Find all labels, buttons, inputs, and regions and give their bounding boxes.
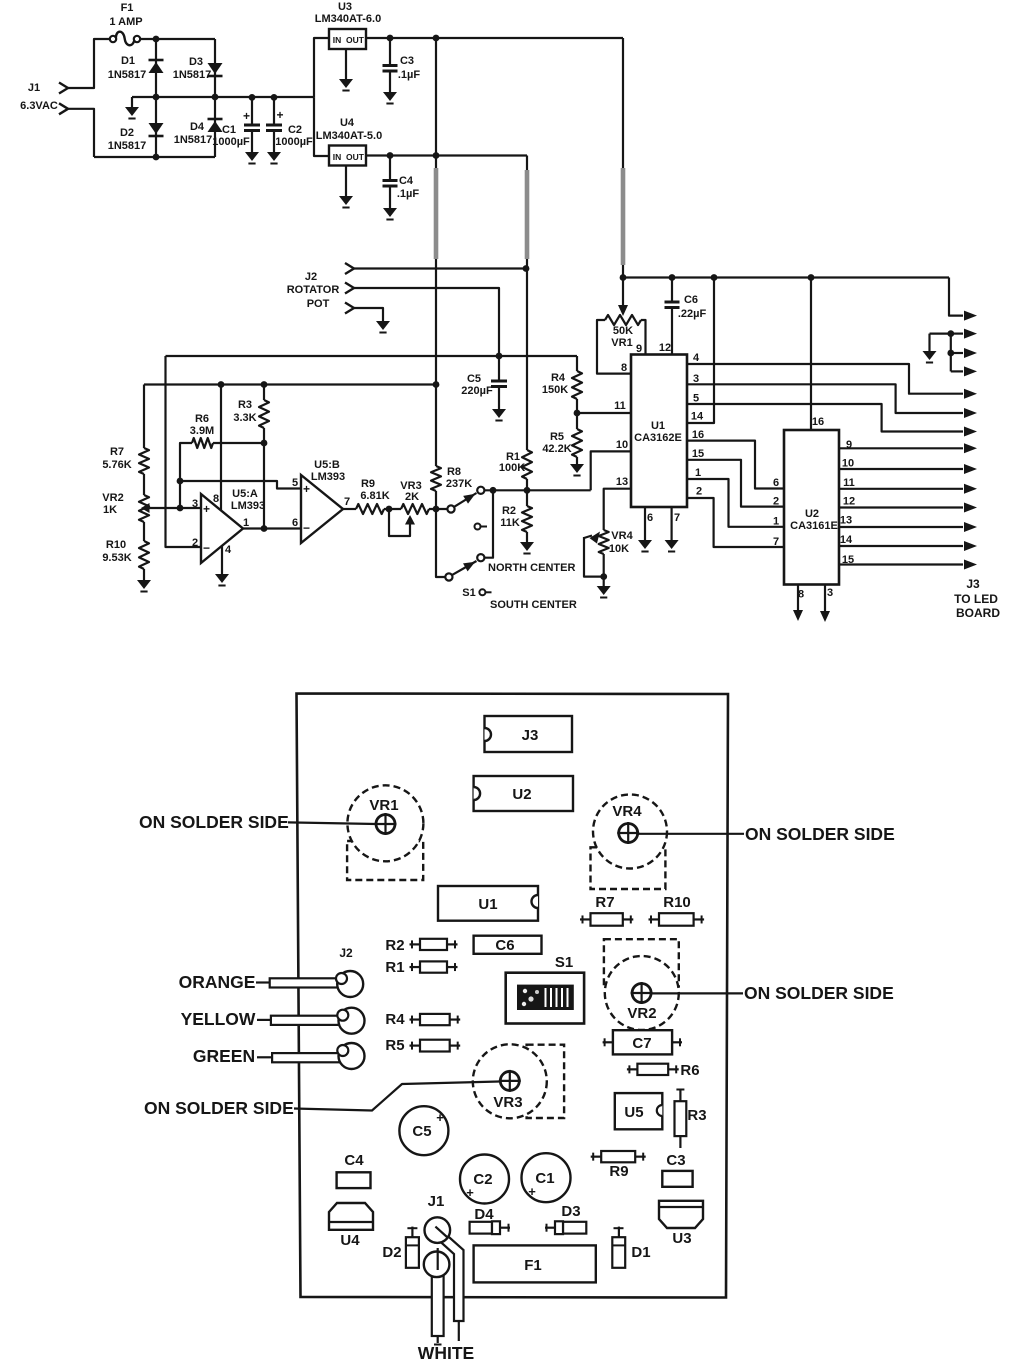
svg-text:9.53K: 9.53K [102, 552, 131, 564]
switch S1 contact lower-left [445, 573, 452, 580]
svg-text:U2: U2 [512, 786, 531, 803]
svg-text:S1: S1 [555, 954, 573, 971]
wire U2 pin16 to rail [810, 278, 812, 431]
node R9 VR3 junction [386, 506, 393, 513]
switch S1 contact lower-right [477, 554, 484, 561]
capacitor C2 footprint [460, 1155, 509, 1204]
svg-text:OUT: OUT [346, 152, 365, 162]
wire U5A output [243, 527, 301, 529]
capacitor C1 [249, 94, 256, 101]
ground U1 pin6 [644, 507, 646, 540]
svg-text:IN: IN [333, 35, 342, 45]
wire to U1 pin 11 [577, 412, 631, 414]
capacitor C7 footprint [613, 1030, 672, 1054]
fuse F1 [110, 36, 116, 42]
wire analog rail [166, 355, 578, 357]
ground cluster for J3 arrows [930, 333, 951, 335]
trimmer VR3 footprint [527, 1045, 565, 1118]
switch S1 pole mark [475, 524, 481, 530]
wire U2 pin14 to J3 [839, 545, 963, 547]
svg-text:13: 13 [616, 476, 628, 488]
svg-text:+: + [528, 1184, 536, 1199]
svg-text:C1: C1 [222, 124, 236, 136]
op-amp U5:A [201, 494, 243, 563]
svg-text:16: 16 [692, 429, 704, 441]
svg-text:R4: R4 [551, 372, 566, 384]
svg-text:VR4: VR4 [611, 530, 633, 542]
svg-text:1000µF: 1000µF [275, 136, 313, 148]
svg-text:R3: R3 [687, 1107, 706, 1124]
svg-text:LM393: LM393 [231, 500, 265, 512]
svg-text:R8: R8 [447, 466, 461, 478]
wire U1 pin16 to U2 pin6 [687, 441, 784, 489]
svg-text:12: 12 [659, 342, 671, 354]
svg-text:14: 14 [691, 411, 704, 423]
svg-text:1N5817: 1N5817 [108, 69, 147, 81]
svg-text:3: 3 [827, 587, 833, 599]
wire U1 pin4 to J3 [687, 364, 963, 394]
resistor R3 [263, 385, 265, 401]
svg-text:C7: C7 [632, 1035, 651, 1052]
wire U2 pin11 to J3 [839, 488, 963, 490]
svg-text:J3: J3 [522, 727, 539, 744]
diode D1 [155, 39, 157, 97]
svg-text:F1: F1 [121, 2, 134, 14]
regulator U3 [329, 29, 366, 49]
svg-text:C5: C5 [412, 1123, 431, 1140]
wire U2 pin13 to J3 [839, 526, 963, 528]
label on solder side VR2 [652, 992, 743, 994]
capacitor C5 [498, 356, 500, 381]
wire +6V vertical [435, 38, 437, 168]
svg-text:150K: 150K [542, 384, 568, 396]
svg-text:+: + [303, 482, 310, 496]
node R8 bottom junction [433, 506, 440, 513]
svg-text:3: 3 [192, 498, 198, 510]
ground U3 [345, 49, 347, 79]
svg-text:R6: R6 [680, 1062, 699, 1079]
wire U3 output rail [366, 37, 623, 39]
svg-text:R6: R6 [195, 413, 209, 425]
svg-text:2K: 2K [405, 491, 419, 503]
wire U5A pin2 input [166, 356, 202, 547]
resistor R7 [143, 385, 145, 449]
wire WHITE lead 2 [434, 1230, 464, 1321]
svg-text:LM340AT-6.0: LM340AT-6.0 [315, 13, 381, 25]
potentiometer VR4 [599, 530, 609, 554]
svg-text:R7: R7 [595, 894, 614, 911]
resistor R5 [576, 413, 578, 429]
IC U1 footprint [438, 886, 538, 921]
svg-text:+: + [436, 1110, 444, 1125]
node bottom rail junction [153, 154, 160, 161]
svg-text:10: 10 [616, 439, 628, 451]
svg-text:R3: R3 [238, 399, 252, 411]
potentiometer VR2 [139, 495, 149, 522]
svg-text:15: 15 [692, 448, 704, 460]
svg-text:BOARD: BOARD [956, 606, 1000, 620]
svg-text:C1: C1 [535, 1170, 554, 1187]
svg-text:R9: R9 [361, 478, 375, 490]
node top rail junction [153, 36, 160, 43]
svg-text:POT: POT [307, 298, 330, 310]
wire U1 pin3 to J3 [687, 384, 963, 413]
capacitor C2 [271, 94, 278, 101]
diode D2 [155, 97, 157, 157]
svg-text:6: 6 [773, 477, 779, 489]
svg-text:U5:A: U5:A [232, 488, 258, 500]
svg-text:6.3VAC: 6.3VAC [20, 100, 58, 112]
svg-text:8: 8 [621, 362, 627, 374]
svg-text:R4: R4 [385, 1011, 405, 1028]
svg-text:U1: U1 [478, 896, 497, 913]
wire U1 pin14 to rail [687, 278, 714, 424]
node mid rail junctions [153, 94, 160, 101]
svg-text:13: 13 [840, 515, 852, 527]
wire J1 upper to fuse [68, 39, 110, 88]
node R4 R5 junction [574, 410, 581, 417]
IC U2 footprint [474, 776, 573, 811]
resistor R9 [343, 508, 356, 510]
connector J2 [345, 263, 354, 274]
svg-text:VR4: VR4 [612, 803, 642, 820]
svg-text:11K: 11K [500, 517, 520, 529]
ground at bridge midpoint [131, 97, 133, 107]
wire J2 pin2 [354, 288, 499, 356]
svg-text:.1µF: .1µF [397, 188, 420, 200]
svg-text:7: 7 [344, 496, 350, 508]
svg-text:OUT: OUT [346, 35, 365, 45]
svg-text:VR2: VR2 [102, 492, 123, 504]
capacitor C4 [389, 156, 391, 181]
svg-text:GREEN: GREEN [193, 1046, 255, 1066]
wire rail to J3 arrow 1 [949, 278, 963, 316]
svg-text:D2: D2 [382, 1244, 401, 1261]
svg-text:C4: C4 [399, 175, 414, 187]
wire +5V vertical [526, 156, 528, 171]
svg-text:U5:B: U5:B [314, 459, 340, 471]
svg-text:10K: 10K [609, 543, 629, 555]
svg-text:ON SOLDER SIDE: ON SOLDER SIDE [139, 812, 289, 832]
svg-text:7: 7 [674, 512, 680, 524]
pad J1 upper [425, 1217, 451, 1243]
svg-text:11: 11 [843, 477, 855, 489]
wire vcc rail op-amps [144, 383, 436, 385]
wire J2 pin1 [354, 267, 526, 269]
svg-text:220µF: 220µF [461, 385, 493, 397]
pad J1 lower [424, 1252, 450, 1278]
wire fuse to bridge top rail [140, 38, 215, 40]
svg-text:2: 2 [192, 537, 198, 549]
svg-text:−: − [303, 521, 310, 535]
resistor R6 [180, 443, 192, 481]
resistor R4 [576, 356, 578, 371]
svg-text:VR2: VR2 [627, 1005, 656, 1022]
svg-text:.22µF: .22µF [678, 308, 707, 320]
svg-text:J1: J1 [28, 82, 40, 94]
pad J2 yellow [339, 1008, 365, 1034]
potentiometer VR3 [401, 504, 429, 514]
IC U1 CA3162E [631, 355, 687, 508]
svg-text:U1: U1 [651, 420, 665, 432]
trimmer VR1 footprint [347, 841, 423, 880]
svg-text:LM393: LM393 [311, 471, 345, 483]
node R3 R6 junction [261, 440, 268, 447]
svg-text:VR1: VR1 [369, 797, 398, 814]
svg-text:1: 1 [243, 517, 249, 529]
potentiometer VR1 [622, 278, 624, 294]
svg-text:CA3161E: CA3161E [790, 520, 838, 532]
svg-text:TO LED: TO LED [954, 592, 998, 606]
connector J1 [59, 83, 68, 94]
svg-text:5: 5 [693, 393, 699, 405]
svg-text:SOUTH CENTER: SOUTH CENTER [490, 599, 577, 611]
regulator U4 [329, 146, 366, 166]
resistor R2 [526, 490, 528, 506]
svg-text:1 AMP: 1 AMP [109, 16, 142, 28]
svg-text:6.81K: 6.81K [360, 490, 389, 502]
capacitor C1 footprint [522, 1153, 571, 1202]
svg-text:2: 2 [773, 496, 779, 508]
capacitor C5 footprint [399, 1106, 448, 1155]
svg-text:J2: J2 [339, 946, 353, 960]
svg-text:R2: R2 [502, 505, 516, 517]
svg-text:R1: R1 [385, 959, 404, 976]
diode D4 [214, 97, 216, 157]
svg-text:C6: C6 [684, 294, 698, 306]
svg-text:4: 4 [693, 352, 700, 364]
wire U2 pin9 to J3 [839, 447, 963, 449]
svg-text:−: − [203, 541, 210, 555]
svg-text:IN: IN [333, 152, 342, 162]
svg-text:5: 5 [292, 477, 298, 489]
svg-text:4: 4 [225, 544, 232, 556]
svg-text:+: + [243, 109, 250, 123]
wire U4 output rail [366, 154, 527, 156]
svg-text:NORTH CENTER: NORTH CENTER [488, 562, 575, 574]
IC U2 CA3161E [784, 430, 839, 585]
svg-text:D4: D4 [190, 121, 205, 133]
svg-text:ON SOLDER SIDE: ON SOLDER SIDE [144, 1098, 294, 1118]
ground U2 pin8 [797, 585, 799, 611]
svg-text:J3: J3 [966, 577, 980, 591]
ground U5A pin4 [221, 546, 223, 574]
capacitor C6 [671, 278, 673, 303]
svg-text:3.3K: 3.3K [233, 412, 256, 424]
svg-text:50K: 50K [613, 325, 633, 337]
wire U1 pin13 to VR4 [604, 489, 631, 530]
wire supply to regulators [314, 38, 329, 97]
resistor R1 [522, 450, 532, 479]
svg-text:J2: J2 [305, 271, 317, 283]
wire U1 pin15 to U2 pin2 [687, 460, 784, 507]
svg-text:42.2K: 42.2K [542, 443, 571, 455]
switch S1 contact upper-left [447, 505, 454, 512]
svg-text:LM340AT-5.0: LM340AT-5.0 [316, 130, 382, 142]
svg-text:D3: D3 [189, 56, 203, 68]
svg-text:U3: U3 [672, 1230, 691, 1247]
wire wiper to R6 [179, 481, 181, 508]
wire lower contact tie [484, 490, 493, 557]
svg-text:C4: C4 [344, 1152, 364, 1169]
svg-text:1: 1 [695, 467, 701, 479]
wire VR3 to switch [429, 508, 448, 510]
resistor R9 footprint [601, 1151, 635, 1162]
svg-text:3.9M: 3.9M [190, 425, 214, 437]
svg-text:D3: D3 [561, 1203, 580, 1220]
svg-text:C3: C3 [666, 1152, 685, 1169]
svg-text:C2: C2 [288, 124, 302, 136]
wire wiper to U5A pin3 [180, 507, 201, 509]
wire bridge bottom rail [94, 156, 215, 158]
ground U1 pin7 [670, 507, 672, 540]
fuse F1 footprint [474, 1245, 596, 1282]
svg-text:CA3162E: CA3162E [634, 432, 682, 444]
svg-text:+: + [203, 502, 210, 516]
svg-text:+: + [466, 1185, 474, 1200]
trimmer VR2 footprint [604, 939, 679, 986]
svg-text:D1: D1 [121, 55, 135, 67]
svg-text:D1: D1 [631, 1244, 650, 1261]
svg-text:U4: U4 [340, 117, 355, 129]
wire mid rail [132, 96, 314, 98]
pad J2 green [339, 1043, 365, 1069]
svg-text:ON SOLDER SIDE: ON SOLDER SIDE [744, 983, 894, 1003]
svg-text:R7: R7 [110, 446, 124, 458]
svg-text:U3: U3 [338, 1, 352, 13]
svg-text:.1µF: .1µF [398, 69, 421, 81]
pad J2 orange [337, 971, 363, 997]
ground U2 pin3 [824, 585, 826, 612]
wire R8 node down to lower contact [436, 509, 445, 577]
svg-text:1: 1 [773, 516, 779, 528]
svg-text:6: 6 [292, 517, 298, 529]
diode D3 [214, 39, 216, 97]
transistor U4 footprint [329, 1203, 373, 1230]
IC U5 footprint [615, 1093, 663, 1129]
svg-text:1N5817: 1N5817 [108, 140, 147, 152]
PCB board outline [297, 694, 729, 1298]
svg-text:7: 7 [773, 536, 779, 548]
svg-text:R5: R5 [385, 1037, 404, 1054]
wire feedback to output [263, 443, 265, 529]
capacitor C6 footprint [474, 936, 542, 954]
svg-text:YELLOW: YELLOW [181, 1009, 256, 1029]
svg-text:C6: C6 [495, 937, 514, 954]
trimmer VR4 footprint [591, 847, 666, 889]
svg-text:C3: C3 [400, 55, 414, 67]
svg-text:1000µF: 1000µF [212, 136, 250, 148]
svg-text:237K: 237K [446, 478, 472, 490]
op-amp U5:B [301, 475, 343, 543]
svg-text:14: 14 [840, 534, 853, 546]
svg-text:16: 16 [812, 416, 824, 428]
wire +6V branch right [622, 38, 624, 168]
svg-text:ORANGE: ORANGE [179, 972, 256, 992]
svg-text:WHITE: WHITE [418, 1343, 474, 1363]
svg-text:5.76K: 5.76K [102, 459, 131, 471]
svg-text:12: 12 [843, 496, 855, 508]
svg-text:+: + [276, 108, 283, 122]
svg-text:R10: R10 [663, 894, 691, 911]
svg-text:1K: 1K [103, 504, 117, 516]
svg-text:U4: U4 [340, 1232, 360, 1249]
node VR2 wiper junction [177, 505, 184, 512]
svg-text:VR1: VR1 [611, 337, 632, 349]
resistor R10 [139, 541, 149, 569]
svg-text:2: 2 [696, 486, 702, 498]
wire U1 pin1 to U2 pin1 [687, 479, 784, 527]
svg-text:C2: C2 [473, 1171, 492, 1188]
svg-text:VR3: VR3 [493, 1094, 522, 1111]
wire J2 pin3 to ground [354, 308, 383, 321]
switch S1 contact upper-right [477, 487, 484, 494]
wire top supply rail [623, 276, 949, 278]
wire switch common node [484, 489, 590, 491]
svg-text:S1: S1 [462, 587, 475, 599]
svg-text:100K: 100K [499, 462, 525, 474]
svg-text:U2: U2 [805, 508, 819, 520]
wire U2 pin15 to J3 [839, 563, 963, 565]
svg-text:1N5817: 1N5817 [174, 134, 213, 146]
connector J3 footprint [485, 716, 573, 752]
svg-text:U5: U5 [624, 1104, 643, 1121]
svg-text:9: 9 [636, 343, 642, 355]
svg-text:R10: R10 [106, 539, 126, 551]
wire U1 pin2 to U2 pin7 [687, 498, 784, 547]
wire U5A pin8 supply [220, 385, 222, 513]
switch S1 arm upper [454, 493, 476, 507]
svg-text:11: 11 [614, 400, 626, 412]
svg-text:R5: R5 [550, 431, 564, 443]
capacitor C3 [389, 38, 391, 66]
svg-text:F1: F1 [524, 1257, 542, 1274]
wire common to U1 pin10 [591, 451, 631, 490]
ground U4 [345, 166, 347, 197]
svg-text:8: 8 [213, 493, 219, 505]
svg-text:ON SOLDER SIDE: ON SOLDER SIDE [745, 824, 895, 844]
svg-text:D2: D2 [120, 127, 134, 139]
switch S1 arm lower [452, 561, 476, 575]
svg-text:1N5817: 1N5817 [173, 69, 212, 81]
svg-text:ROTATOR: ROTATOR [287, 284, 340, 296]
svg-text:R9: R9 [609, 1163, 628, 1180]
wire WHITE lead 1 [432, 1269, 444, 1336]
transistor U3 footprint [659, 1201, 703, 1228]
wire U2 pin10 to J3 [839, 468, 963, 470]
svg-text:C5: C5 [467, 373, 481, 385]
svg-text:J1: J1 [428, 1193, 445, 1210]
resistor R8 [431, 466, 441, 491]
wire to U5B pin5 [180, 481, 301, 489]
svg-text:R2: R2 [385, 937, 404, 954]
wire U2 pin12 to J3 [839, 506, 963, 508]
svg-text:10: 10 [842, 458, 854, 470]
wire J1 lower to bridge bottom rail [68, 109, 94, 157]
label on solder side VR4 [638, 833, 744, 835]
wire U1 pin5 to J3 [687, 404, 963, 432]
resistor R3 footprint [675, 1101, 687, 1136]
svg-text:6: 6 [647, 512, 653, 524]
